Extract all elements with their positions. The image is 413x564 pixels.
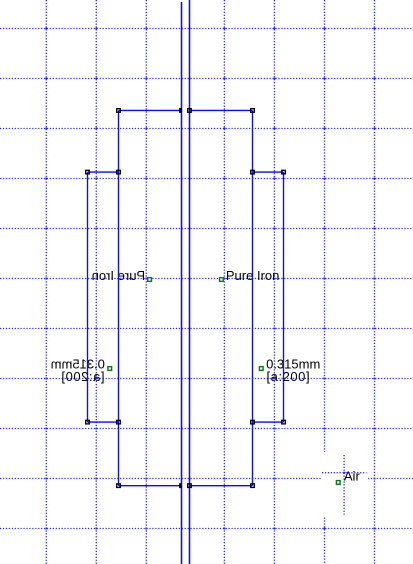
- flange top right: [253, 171, 284, 173]
- handle Air: [336, 481, 340, 485]
- bottom cap: [119, 485, 253, 487]
- handle coil right: [259, 367, 263, 371]
- grid crossing dots: [45, 28, 375, 530]
- block label Pure Iron (right): [226, 268, 279, 283]
- node flange bottom outer-left: [86, 420, 90, 424]
- handle coil left: [108, 367, 112, 371]
- node bottom cap axis-left (narrow): [180, 484, 181, 488]
- node flange bottom inner-right: [251, 420, 255, 424]
- flange top left: [88, 171, 119, 173]
- svg-text:Air: Air: [344, 469, 361, 484]
- handle Pure Iron left: [148, 278, 152, 282]
- node bottom cap axis-right: [188, 484, 192, 488]
- flange bottom left: [88, 421, 119, 423]
- block label coil 0.315mm (left, mirrored): [51, 356, 105, 383]
- axis line left: [181, 2, 183, 564]
- top cap: [119, 109, 253, 111]
- node bottom cap left: [117, 484, 121, 488]
- node top cap left: [117, 109, 121, 113]
- inner vertical right: [252, 110, 254, 485]
- green block label handles: [108, 278, 340, 485]
- axis line right: [189, 0, 191, 564]
- node flange top outer-right: [282, 170, 286, 174]
- node white fills (under geometry lines): [85, 108, 286, 488]
- flange outer right: [283, 172, 285, 422]
- node borders (black squares): [86, 109, 286, 488]
- label drag cross (dotted): [322, 455, 367, 515]
- node flange top inner-left: [117, 170, 121, 174]
- node flange top outer-left: [86, 170, 90, 174]
- geometry lines: [88, 0, 284, 564]
- svg-text:[a:200]: [a:200]: [61, 369, 105, 384]
- node top cap axis-right: [188, 109, 192, 113]
- node flange bottom inner-left: [117, 420, 121, 424]
- block label coil 0.315mm (right): [266, 356, 320, 383]
- node top cap right: [251, 109, 255, 113]
- flange outer left: [87, 172, 89, 422]
- block label Air: [344, 469, 361, 484]
- flange bottom right: [253, 421, 284, 423]
- inner vertical left: [118, 110, 120, 485]
- block label Pure Iron (left, mirrored): [92, 268, 145, 283]
- svg-text:[a:200]: [a:200]: [267, 369, 311, 384]
- node bottom cap right: [251, 484, 255, 488]
- node flange bottom outer-right: [282, 420, 286, 424]
- node flange top inner-right: [251, 170, 255, 174]
- handle Pure Iron right: [220, 278, 224, 282]
- node top cap axis-left (narrow): [180, 109, 181, 113]
